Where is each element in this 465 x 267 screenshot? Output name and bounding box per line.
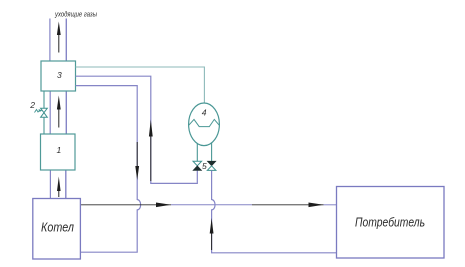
svg-text:5: 5 <box>202 161 207 171</box>
svg-text:Котел: Котел <box>41 220 75 235</box>
arrow: flue gas up arrow lower <box>57 177 61 198</box>
water level wavy line inside drum 4 <box>189 119 219 126</box>
wire: purple riser pipe from block 3 right (upper) down to valve 5 left branch <box>76 76 198 183</box>
svg-text:Потребитель: Потребитель <box>355 215 425 230</box>
svg-text:1: 1 <box>57 145 62 155</box>
wire: teal pipe from drum bottom right to valve 5 right <box>211 143 213 161</box>
arrow: flue gas up arrow top <box>57 22 61 53</box>
wire: flue duct left line lower segment <box>49 170 51 199</box>
wire: light teal steam line from block 3 to drum 4 <box>76 67 205 103</box>
arrow: flue gas up arrow middle <box>57 96 61 128</box>
svg-text:уходящие газы: уходящие газы <box>54 10 97 19</box>
arrow: up arrow on consumer return riser <box>210 218 214 250</box>
arrow: right arrow on main line (left) <box>156 203 171 208</box>
wire: flue duct left line top segment <box>49 19 51 62</box>
valve 5 right (top filled, bottom open) <box>207 161 216 170</box>
wire: flue duct right line lower segment <box>65 170 67 199</box>
wire: teal pipe from block 3 bottom to block 1 top (valve 2 branch) <box>43 91 45 134</box>
block 3 (flue heat exchanger) <box>41 61 76 91</box>
svg-text:3: 3 <box>57 70 62 80</box>
leader arrow for label 2 <box>35 109 43 113</box>
arrow: down arrow on feed pipe <box>135 142 139 180</box>
wire: purple feed pipe from block 3 right (lower) down to boiler return, with jump over main line <box>76 86 141 253</box>
wire: teal pipe from drum bottom left to valve 5 left <box>196 143 198 161</box>
block 1 (economizer) <box>41 134 76 170</box>
wire: flue duct right line top segment <box>65 19 67 62</box>
svg-text:2: 2 <box>29 100 35 110</box>
wire: purple return pipe from valve 5 right down to consumer return, with jump over main line <box>212 171 337 253</box>
wire: flue duct right line middle segment <box>65 91 67 134</box>
drum 4 (separator) <box>189 103 220 146</box>
wire: flue duct left line middle segment <box>49 91 51 134</box>
consumer block (Потребитель) <box>337 187 445 259</box>
boiler block (Котел) <box>33 199 81 260</box>
svg-text:4: 4 <box>202 108 207 118</box>
valve 2 <box>41 108 48 117</box>
arrow: right arrow on main line (right) <box>309 203 324 208</box>
wire: main supply line from boiler to consumer <box>80 204 336 206</box>
arrow: up arrow on riser pipe <box>149 120 153 182</box>
valve 5 left (top open, bottom filled) <box>193 161 202 170</box>
